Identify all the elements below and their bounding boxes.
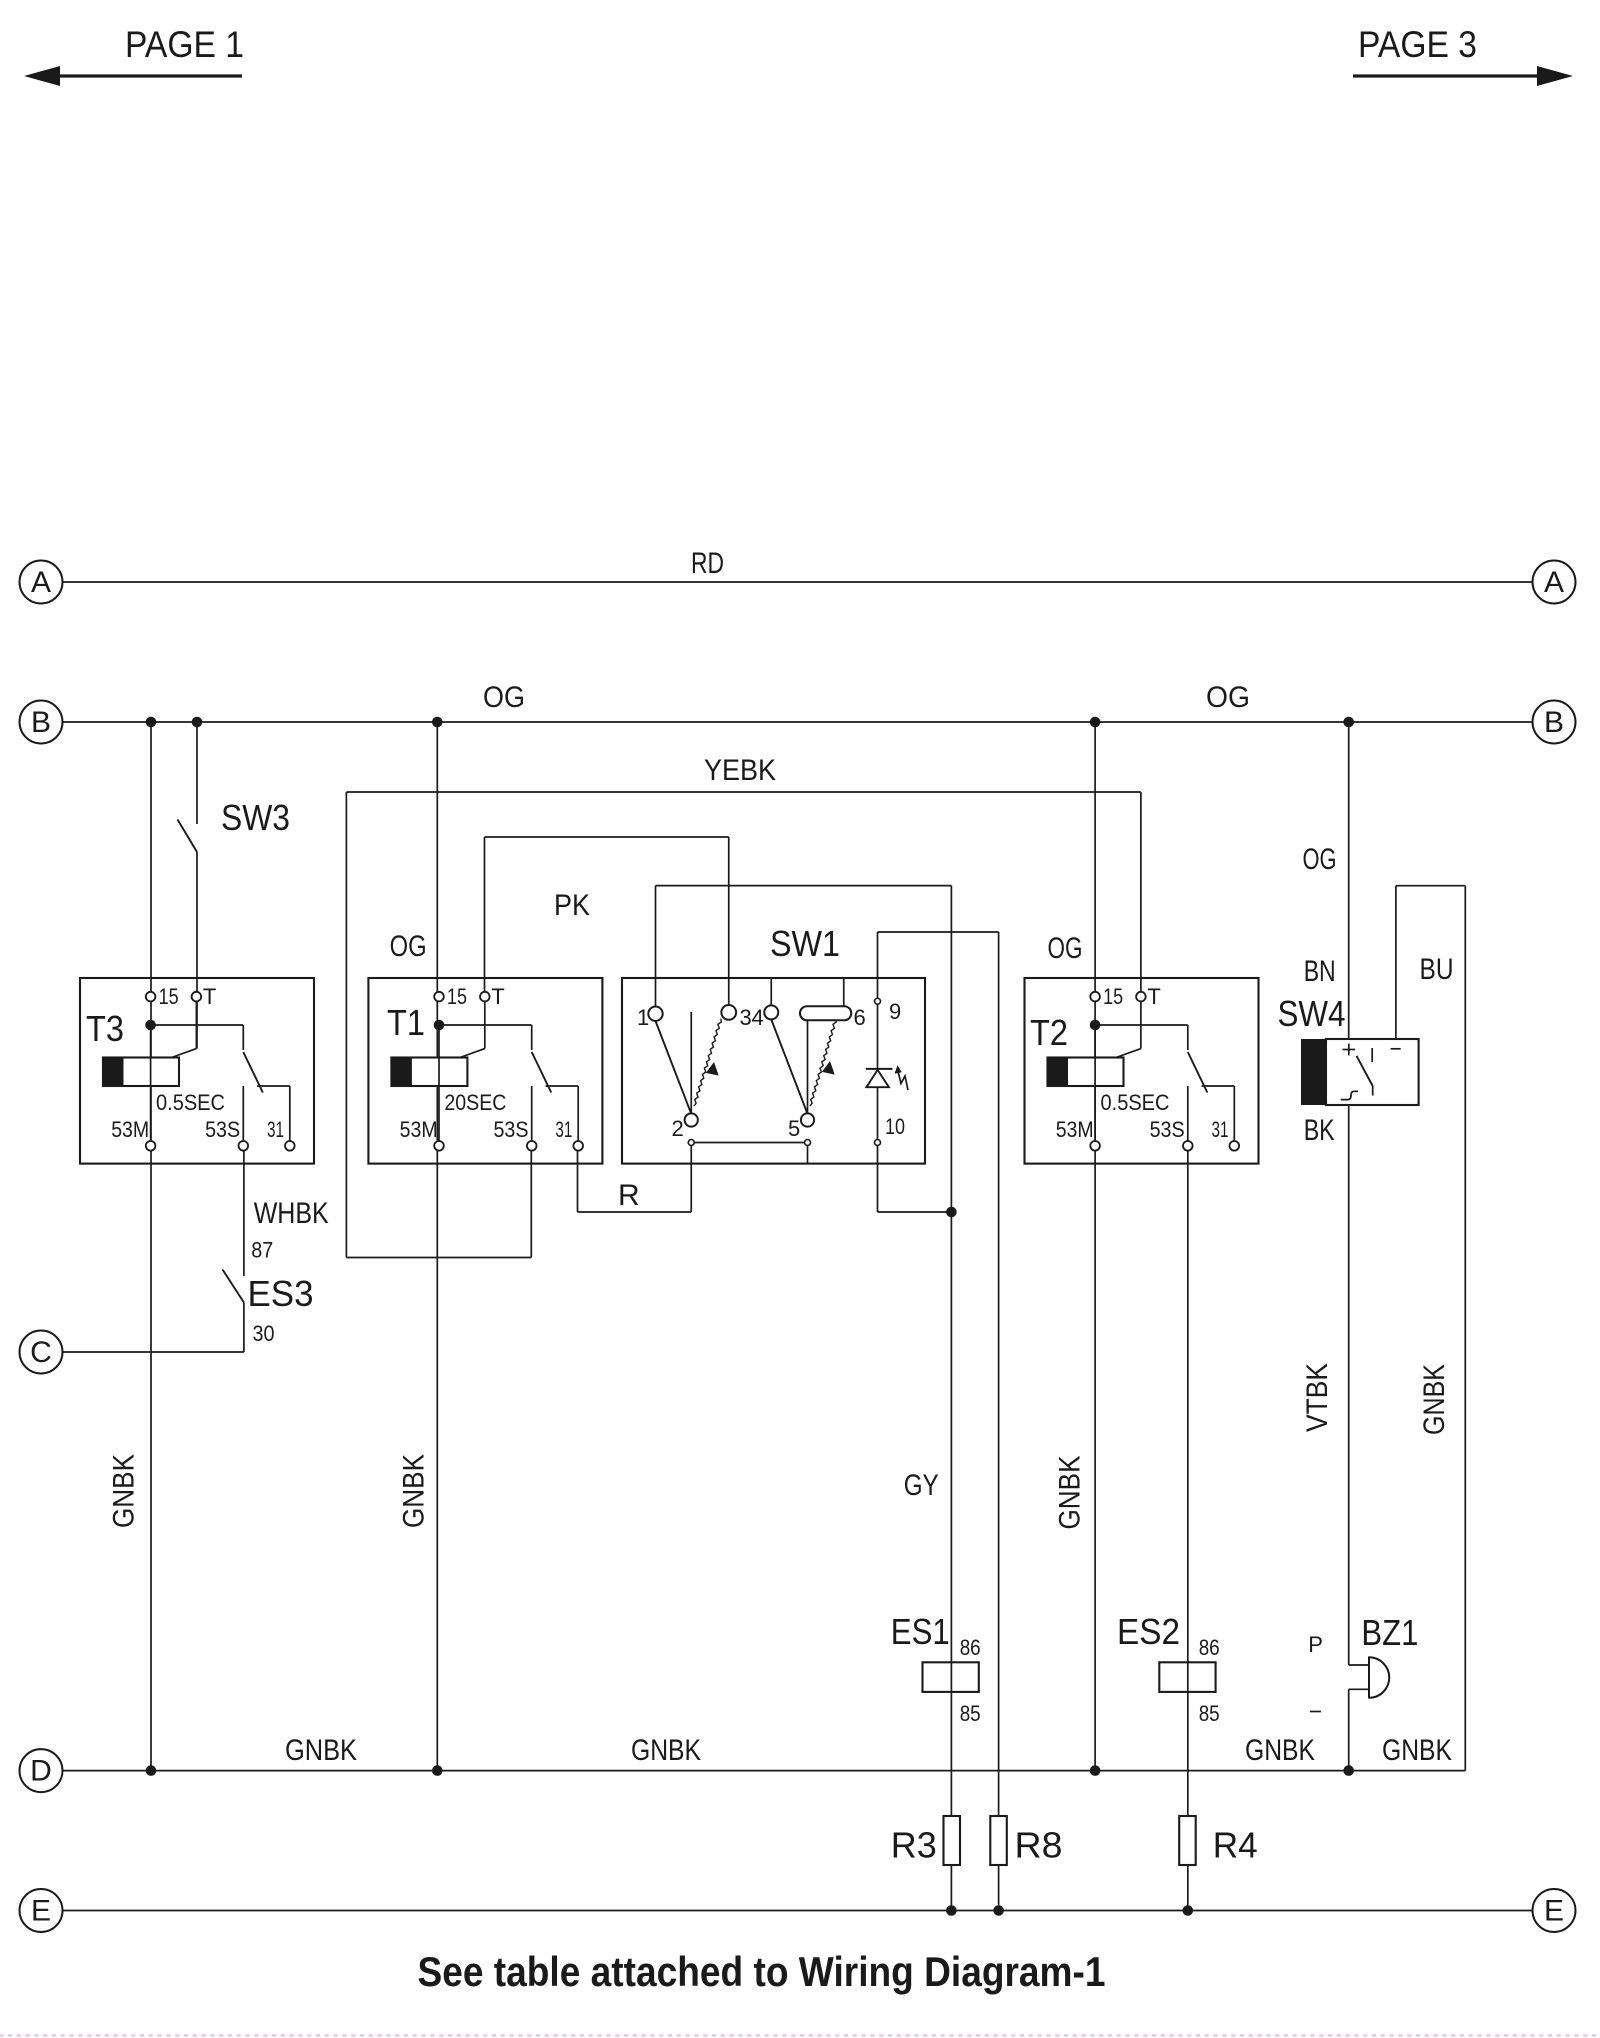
svg-text:85: 85 [960, 1701, 981, 1726]
SW1 actuation arrow 5 to 6 (wavy) [810, 1019, 836, 1107]
junction node bus B to SW3 [192, 717, 203, 728]
svg-text:GNBK: GNBK [108, 1454, 141, 1528]
bus node A (right) [1533, 561, 1576, 604]
bus node E (right) [1533, 1889, 1576, 1932]
bus node E (left) [20, 1889, 63, 1932]
junction node bus B to T1 [432, 717, 443, 728]
svg-text:OG: OG [1303, 843, 1337, 876]
svg-text:15: 15 [159, 984, 179, 1009]
bus node B (left) [20, 701, 63, 744]
svg-text:GNBK: GNBK [1245, 1734, 1315, 1767]
svg-text:86: 86 [960, 1635, 981, 1660]
svg-text:0.5SEC: 0.5SEC [156, 1090, 225, 1115]
svg-text:GNBK: GNBK [1382, 1734, 1452, 1767]
svg-text:BN: BN [1304, 955, 1336, 988]
junction node R3 to bus E [946, 1905, 957, 1916]
svg-text:T3: T3 [86, 1008, 124, 1049]
svg-text:A: A [31, 566, 51, 599]
svg-text:OG: OG [483, 681, 525, 714]
svg-text:0.5SEC: 0.5SEC [1101, 1090, 1170, 1115]
svg-text:C: C [30, 1336, 52, 1369]
SW1 actuation arrow 2 to 3 (wavy) [694, 1019, 721, 1107]
SW1 stub terminal 4 [770, 978, 772, 1006]
svg-text:D: D [30, 1755, 52, 1788]
SW1 contact blade 4-5 [771, 1019, 807, 1113]
svg-text:T: T [1147, 984, 1160, 1009]
bus node B (right) [1533, 701, 1576, 744]
svg-text:B: B [1544, 706, 1564, 739]
timer relay T1 body [368, 978, 602, 1164]
svg-text:15: 15 [447, 984, 467, 1009]
switch ES3 [223, 1270, 244, 1303]
svg-text:53S: 53S [205, 1117, 240, 1142]
junction node bus B to T2 [1090, 717, 1101, 728]
SW4 minus terminal [1391, 1048, 1401, 1050]
svg-text:15: 15 [1103, 984, 1123, 1009]
T3 changeover contact blade [243, 1052, 262, 1093]
timer relay T2 body [1025, 978, 1259, 1164]
junction node R8 to bus E [993, 1905, 1004, 1916]
wire WHBK T3.53S to ES3 [243, 1151, 245, 1276]
T3 wire T to coil [195, 997, 197, 1049]
T1 terminals 15 T 53M 53S 31 [434, 992, 444, 1002]
SW1 terminal 4 [764, 1005, 778, 1019]
wire SW1.10 to junction [877, 1146, 879, 1213]
svg-text:R: R [618, 1179, 640, 1212]
resistor R8 [990, 1816, 1007, 1865]
svg-text:SW4: SW4 [1278, 993, 1346, 1034]
wire net R T1.31 to SW1.2 [577, 1151, 579, 1212]
junction node bus B to T3 GNBK [146, 717, 157, 728]
resistor R4 [1179, 1816, 1196, 1865]
T2 wire stub 53S [1187, 1086, 1189, 1141]
bus node D [20, 1749, 63, 1792]
T1 wire stub 53S [531, 1086, 533, 1141]
wire BU loop SW4 to bus D [1395, 886, 1397, 1039]
svg-text:PAGE 3: PAGE 3 [1358, 24, 1477, 65]
T2 junction node 15 [1090, 1020, 1101, 1031]
svg-text:20SEC: 20SEC [444, 1090, 506, 1115]
wire bus C [63, 1351, 244, 1353]
junction node bus B to SW4 [1343, 717, 1354, 728]
T1 wire 15 through coil [438, 1025, 440, 1146]
SW1 stub below 5 [807, 1146, 809, 1164]
svg-text:53S: 53S [1150, 1117, 1185, 1142]
svg-text:YEBK: YEBK [704, 754, 776, 787]
SW1 stub terminal 6 [843, 978, 845, 1006]
T3 coil [103, 1058, 179, 1087]
wire bus E [63, 1910, 1533, 1912]
SW1 wire diode to 10 [877, 1087, 879, 1139]
label minus (BZ1) [1310, 1711, 1321, 1713]
SW4 centre pin [1371, 1048, 1373, 1062]
svg-text:T: T [203, 984, 216, 1009]
junction node BZ1 to bus D [1343, 1765, 1354, 1776]
SW1 flash arrow [898, 1073, 908, 1091]
SW1 wiper rest line (right) [807, 1020, 809, 1114]
svg-text:31: 31 [1212, 1117, 1229, 1142]
T2 wire 15 through coil [1094, 1025, 1096, 1146]
svg-text:31: 31 [555, 1117, 572, 1142]
svg-text:RD: RD [691, 547, 724, 580]
svg-text:53S: 53S [494, 1117, 529, 1142]
svg-text:86: 86 [1199, 1635, 1220, 1660]
svg-text:R8: R8 [1015, 1825, 1063, 1866]
T1 wire contact to 31 [546, 1085, 579, 1087]
wire junction to ES1 to R3 to bus E [950, 1212, 952, 1911]
switch unit SW1 body [622, 978, 925, 1164]
T3 wire 15 to contact pivot [151, 1024, 244, 1026]
SW1 diode (flasher) [877, 1004, 879, 1069]
svg-text:GNBK: GNBK [398, 1454, 431, 1528]
wire GNBK T3.53M to bus D [150, 722, 152, 1771]
svg-text:OG: OG [390, 930, 427, 963]
SW4 contact blade [1357, 1056, 1373, 1086]
T3 wire stub 53S [242, 1086, 244, 1141]
wire YEBK loop: T1.53S to T2.T [530, 1151, 532, 1258]
wire SW1.1 loop to junction above ES1 [655, 886, 657, 1007]
svg-text:GNBK: GNBK [285, 1734, 357, 1767]
svg-text:6: 6 [854, 1005, 866, 1030]
svg-text:BK: BK [1304, 1114, 1335, 1147]
page boundary marker [0, 2034, 1600, 2036]
svg-text:ES1: ES1 [891, 1611, 950, 1652]
svg-text:4: 4 [752, 1005, 764, 1030]
T2 terminals 15 T 53M 53S 31 [1090, 992, 1100, 1002]
svg-text:5: 5 [788, 1116, 800, 1141]
svg-text:3: 3 [740, 1005, 752, 1030]
wire bus D GNBK [63, 1770, 1466, 1772]
T2 changeover contact blade [1188, 1052, 1208, 1093]
wire bus A RD [63, 581, 1533, 583]
svg-text:B: B [31, 706, 51, 739]
wire GY SW1.9 loop down to R8 [877, 932, 879, 999]
svg-text:53M: 53M [1056, 1117, 1094, 1142]
svg-text:1: 1 [637, 1005, 649, 1030]
SW1 wiper rest line (left) [690, 1012, 692, 1114]
svg-text:87: 87 [251, 1238, 273, 1263]
SW1 terminal 1 [648, 1007, 662, 1021]
wire PK loop: T1.T to SW1.3 [484, 837, 486, 992]
junction node above ES1 [946, 1207, 957, 1218]
T1 wire T to coil [484, 997, 486, 1049]
SW1 terminal 2 [685, 1113, 698, 1126]
wire VTBK SW4 to BZ1 [1348, 1105, 1350, 1665]
T1 junction node 15 [434, 1020, 445, 1031]
bus node C [20, 1331, 63, 1374]
svg-text:OG: OG [1206, 681, 1250, 714]
svg-text:53M: 53M [400, 1117, 438, 1142]
T3 terminals 15 T 53M 53S 31 [146, 992, 156, 1002]
svg-text:BU: BU [1420, 953, 1454, 986]
svg-text:P: P [1308, 1632, 1323, 1657]
junction node R4 to bus E [1183, 1905, 1194, 1916]
wire bus B OG [63, 721, 1533, 723]
svg-text:10: 10 [885, 1114, 905, 1139]
svg-text:85: 85 [1199, 1701, 1220, 1726]
svg-text:BZ1: BZ1 [1361, 1612, 1418, 1653]
svg-text:VTBK: VTBK [1301, 1363, 1334, 1432]
junction node T1 GNBK to bus D [432, 1765, 443, 1776]
svg-text:ES2: ES2 [1117, 1611, 1180, 1652]
SW1 terminal 10 [875, 1140, 881, 1146]
svg-text:SW1: SW1 [770, 923, 840, 964]
wire ES3 to bus C [243, 1303, 245, 1353]
junction node T3 GNBK to bus D [146, 1765, 157, 1776]
svg-text:PAGE 1: PAGE 1 [125, 24, 244, 65]
wire T2.53S to ES2 to R4 to bus E [1187, 1151, 1189, 1911]
svg-text:31: 31 [267, 1117, 284, 1142]
svg-text:T1: T1 [387, 1002, 425, 1043]
svg-text:GY: GY [904, 1469, 939, 1502]
svg-text:A: A [1544, 566, 1564, 599]
switch SW4 body [1326, 1039, 1419, 1105]
svg-text:53M: 53M [111, 1117, 149, 1142]
wire bus B to SW3 [196, 722, 198, 824]
SW1 terminal 5 [801, 1113, 814, 1126]
SW1 bridge 2-5 [691, 1142, 807, 1144]
svg-text:WHBK: WHBK [254, 1197, 329, 1230]
svg-text:ES3: ES3 [248, 1273, 314, 1314]
svg-text:9: 9 [889, 999, 901, 1024]
T1 coil [391, 1058, 467, 1087]
wire OG bus B to SW4 [1348, 722, 1350, 1039]
svg-text:OG: OG [1048, 932, 1083, 965]
T2 wire T to coil [1140, 997, 1142, 1049]
SW1 terminal 5 lower [805, 1140, 811, 1146]
T1 wire 15 to contact pivot [439, 1024, 532, 1026]
svg-text:R3: R3 [891, 1825, 937, 1866]
wire SW3 to T3.T [196, 852, 198, 1049]
svg-text:30: 30 [253, 1321, 275, 1346]
switch SW3 [178, 820, 198, 853]
SW1 terminal 6 (stadium) [800, 1006, 851, 1020]
svg-text:T: T [491, 984, 504, 1009]
SW4 plus terminal [1343, 1049, 1356, 1051]
T2 wire contact to 31 [1202, 1085, 1235, 1087]
svg-text:SW3: SW3 [221, 797, 290, 838]
T3 junction node 15 [145, 1020, 156, 1031]
junction node T2 GNBK to bus D [1090, 1765, 1101, 1776]
wire OG bus B to T2.15 / GNBK T2.53M to bus D [1094, 722, 1096, 1771]
T2 coil [1048, 1058, 1124, 1087]
SW1 terminal 2 lower [688, 1140, 694, 1146]
svg-text:GNBK: GNBK [631, 1734, 701, 1767]
SW1 contact blade 1-2 [656, 1021, 692, 1114]
svg-text:T2: T2 [1030, 1012, 1068, 1053]
T3 wire 15 through coil [150, 1025, 152, 1146]
T2 wire 15 to contact pivot [1095, 1024, 1188, 1026]
svg-text:R4: R4 [1213, 1825, 1258, 1866]
svg-text:E: E [1544, 1895, 1564, 1928]
bus node A (left) [20, 561, 63, 604]
SW4 plug hook [1341, 1091, 1358, 1099]
resistor R3 [944, 1816, 961, 1865]
wire OG bus B to T1.15 / GNBK T1.53M to bus D [436, 722, 438, 1771]
svg-text:GNBK: GNBK [1418, 1364, 1451, 1435]
svg-text:See table attached to Wiring D: See table attached to Wiring Diagram-1 [418, 1948, 1106, 1995]
svg-text:2: 2 [672, 1116, 684, 1141]
SW1 terminal 9 [875, 998, 881, 1004]
svg-text:PK: PK [554, 889, 590, 922]
T3 wire contact to 31 [257, 1085, 290, 1087]
svg-text:E: E [31, 1895, 51, 1928]
svg-text:GNBK: GNBK [1054, 1456, 1087, 1530]
SW1 terminal 3 [721, 1005, 736, 1020]
wire BZ1 to bus D [1348, 1689, 1350, 1770]
timer relay T3 body [80, 978, 314, 1164]
T1 changeover contact blade [532, 1052, 552, 1093]
